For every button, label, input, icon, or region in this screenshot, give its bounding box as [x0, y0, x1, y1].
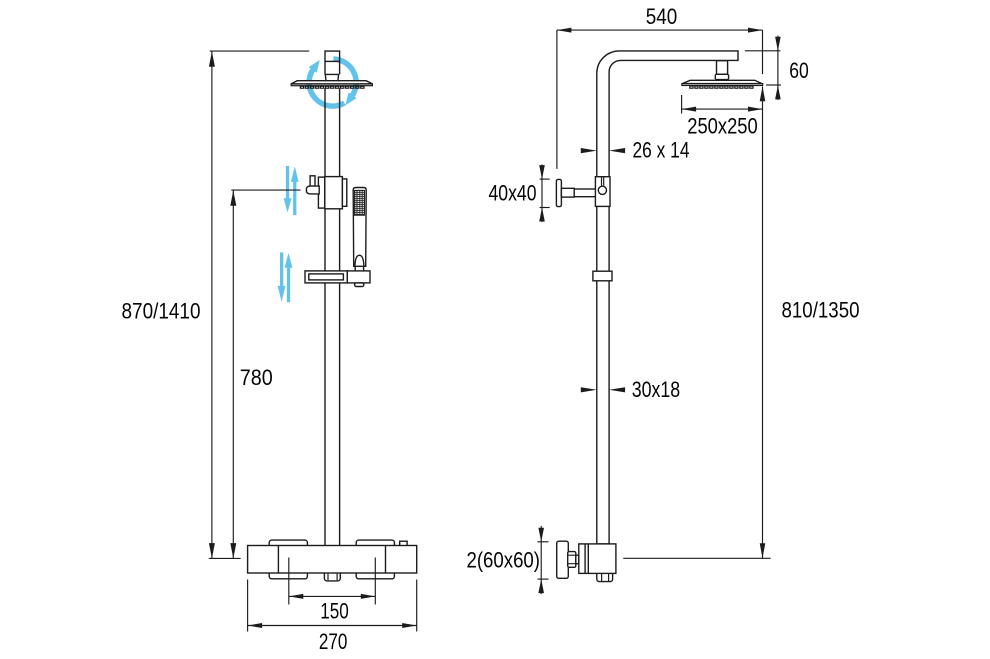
- hand shower inlet arch: [355, 255, 364, 266]
- hand shower holder bracket: [347, 271, 370, 283]
- dimension 250x250: [682, 95, 763, 139]
- svg-text:250x250: 250x250: [687, 114, 758, 139]
- mixer knob bottom left: [269, 571, 307, 579]
- clamp screw line: [602, 177, 604, 186]
- mixer hex facet lines (side): [602, 574, 609, 581]
- svg-text:780: 780: [240, 365, 273, 390]
- svg-text:540: 540: [646, 4, 678, 29]
- slider bracket left plate: [318, 177, 324, 208]
- soap dish: [305, 271, 347, 283]
- dimension 780: [209, 190, 301, 558]
- dimension 2(60x60): [467, 526, 549, 594]
- svg-text:150: 150: [320, 598, 349, 623]
- riser pipe middle segment: [325, 88, 340, 176]
- mixer hex facet lines: [328, 574, 337, 581]
- slider knob handle: [306, 186, 319, 194]
- mixer knob top left: [269, 540, 307, 548]
- svg-text:30x18: 30x18: [632, 377, 681, 402]
- svg-text:810/1350: 810/1350: [782, 297, 860, 322]
- mixer body: [248, 546, 417, 574]
- mixer tab top right: [400, 541, 407, 546]
- dimension 270: [248, 580, 417, 654]
- svg-text:40x40: 40x40: [489, 181, 537, 206]
- mixer body (side): [579, 544, 616, 574]
- slide arrow pair lower (blue): [278, 252, 293, 302]
- rotation arrow arc upper (blue): [309, 60, 345, 106]
- dimension 60: [745, 36, 809, 100]
- dimension 810/1350: [623, 86, 859, 558]
- pipe coupling collar: [593, 271, 612, 281]
- dimension 870/1410: [122, 51, 310, 558]
- SIDE VIEW: [467, 4, 860, 594]
- mixer body division lines: [278, 546, 385, 574]
- head stem (side): [717, 61, 728, 75]
- label 26 x 14 with leader arrows: [581, 138, 690, 163]
- riser pipe upper segment: [325, 51, 340, 74]
- mixer inlet nut (side): [568, 552, 579, 568]
- label 30x18 with leader arrows: [581, 377, 680, 402]
- shower head top plate: [291, 81, 372, 84]
- mixer wall flange (side): [557, 541, 569, 578]
- svg-text:2(60x60): 2(60x60): [467, 548, 541, 573]
- rotation arrow arc lower (blue): [333, 59, 356, 105]
- head connector taper: [325, 74, 338, 80]
- hand shower body: [353, 188, 366, 267]
- shower head top plate (side): [682, 80, 762, 83]
- wall bracket pipe clamp: [595, 177, 610, 207]
- hand shower neck: [355, 266, 363, 271]
- mixer outlet hex (side): [597, 572, 613, 582]
- slider bracket body: [325, 177, 343, 209]
- holder tab: [355, 283, 364, 287]
- riser pipe bottom segment: [325, 283, 340, 546]
- soap dish inner recess: [309, 274, 344, 280]
- svg-text:60: 60: [789, 58, 809, 83]
- svg-text:26 x 14: 26 x 14: [633, 138, 690, 163]
- FRONT VIEW: [122, 51, 417, 654]
- shower head rim band: [291, 84, 372, 86]
- slide arrow pair upper (blue): [284, 166, 299, 215]
- wall bracket flange: [556, 179, 561, 206]
- shower head rim band (side): [682, 84, 763, 86]
- slider bracket right plate: [342, 179, 346, 206]
- dimension 40x40: [489, 165, 550, 223]
- dimension 540: [557, 4, 763, 169]
- riser pipe lower segment: [325, 209, 340, 271]
- dimension 150: [289, 558, 376, 624]
- riser pipe and top arm outline: [597, 51, 738, 544]
- clamp pivot circle: [598, 186, 606, 194]
- wall bracket arm rod: [574, 189, 597, 197]
- mixer knob bottom right: [356, 571, 394, 579]
- slider knob stem: [310, 176, 315, 186]
- svg-text:270: 270: [319, 629, 348, 654]
- shower head nozzles (side): [690, 86, 753, 88]
- hand shower spray face grid: [355, 190, 365, 215]
- svg-text:870/1410: 870/1410: [122, 299, 201, 324]
- wall bracket arm thick part: [561, 188, 574, 197]
- shower head nozzles: [300, 86, 364, 88]
- head stem collar (side): [715, 74, 728, 79]
- mixer outlet hex bottom: [324, 572, 340, 581]
- mixer knob top right: [356, 540, 394, 548]
- mixer body lines (side): [585, 544, 588, 574]
